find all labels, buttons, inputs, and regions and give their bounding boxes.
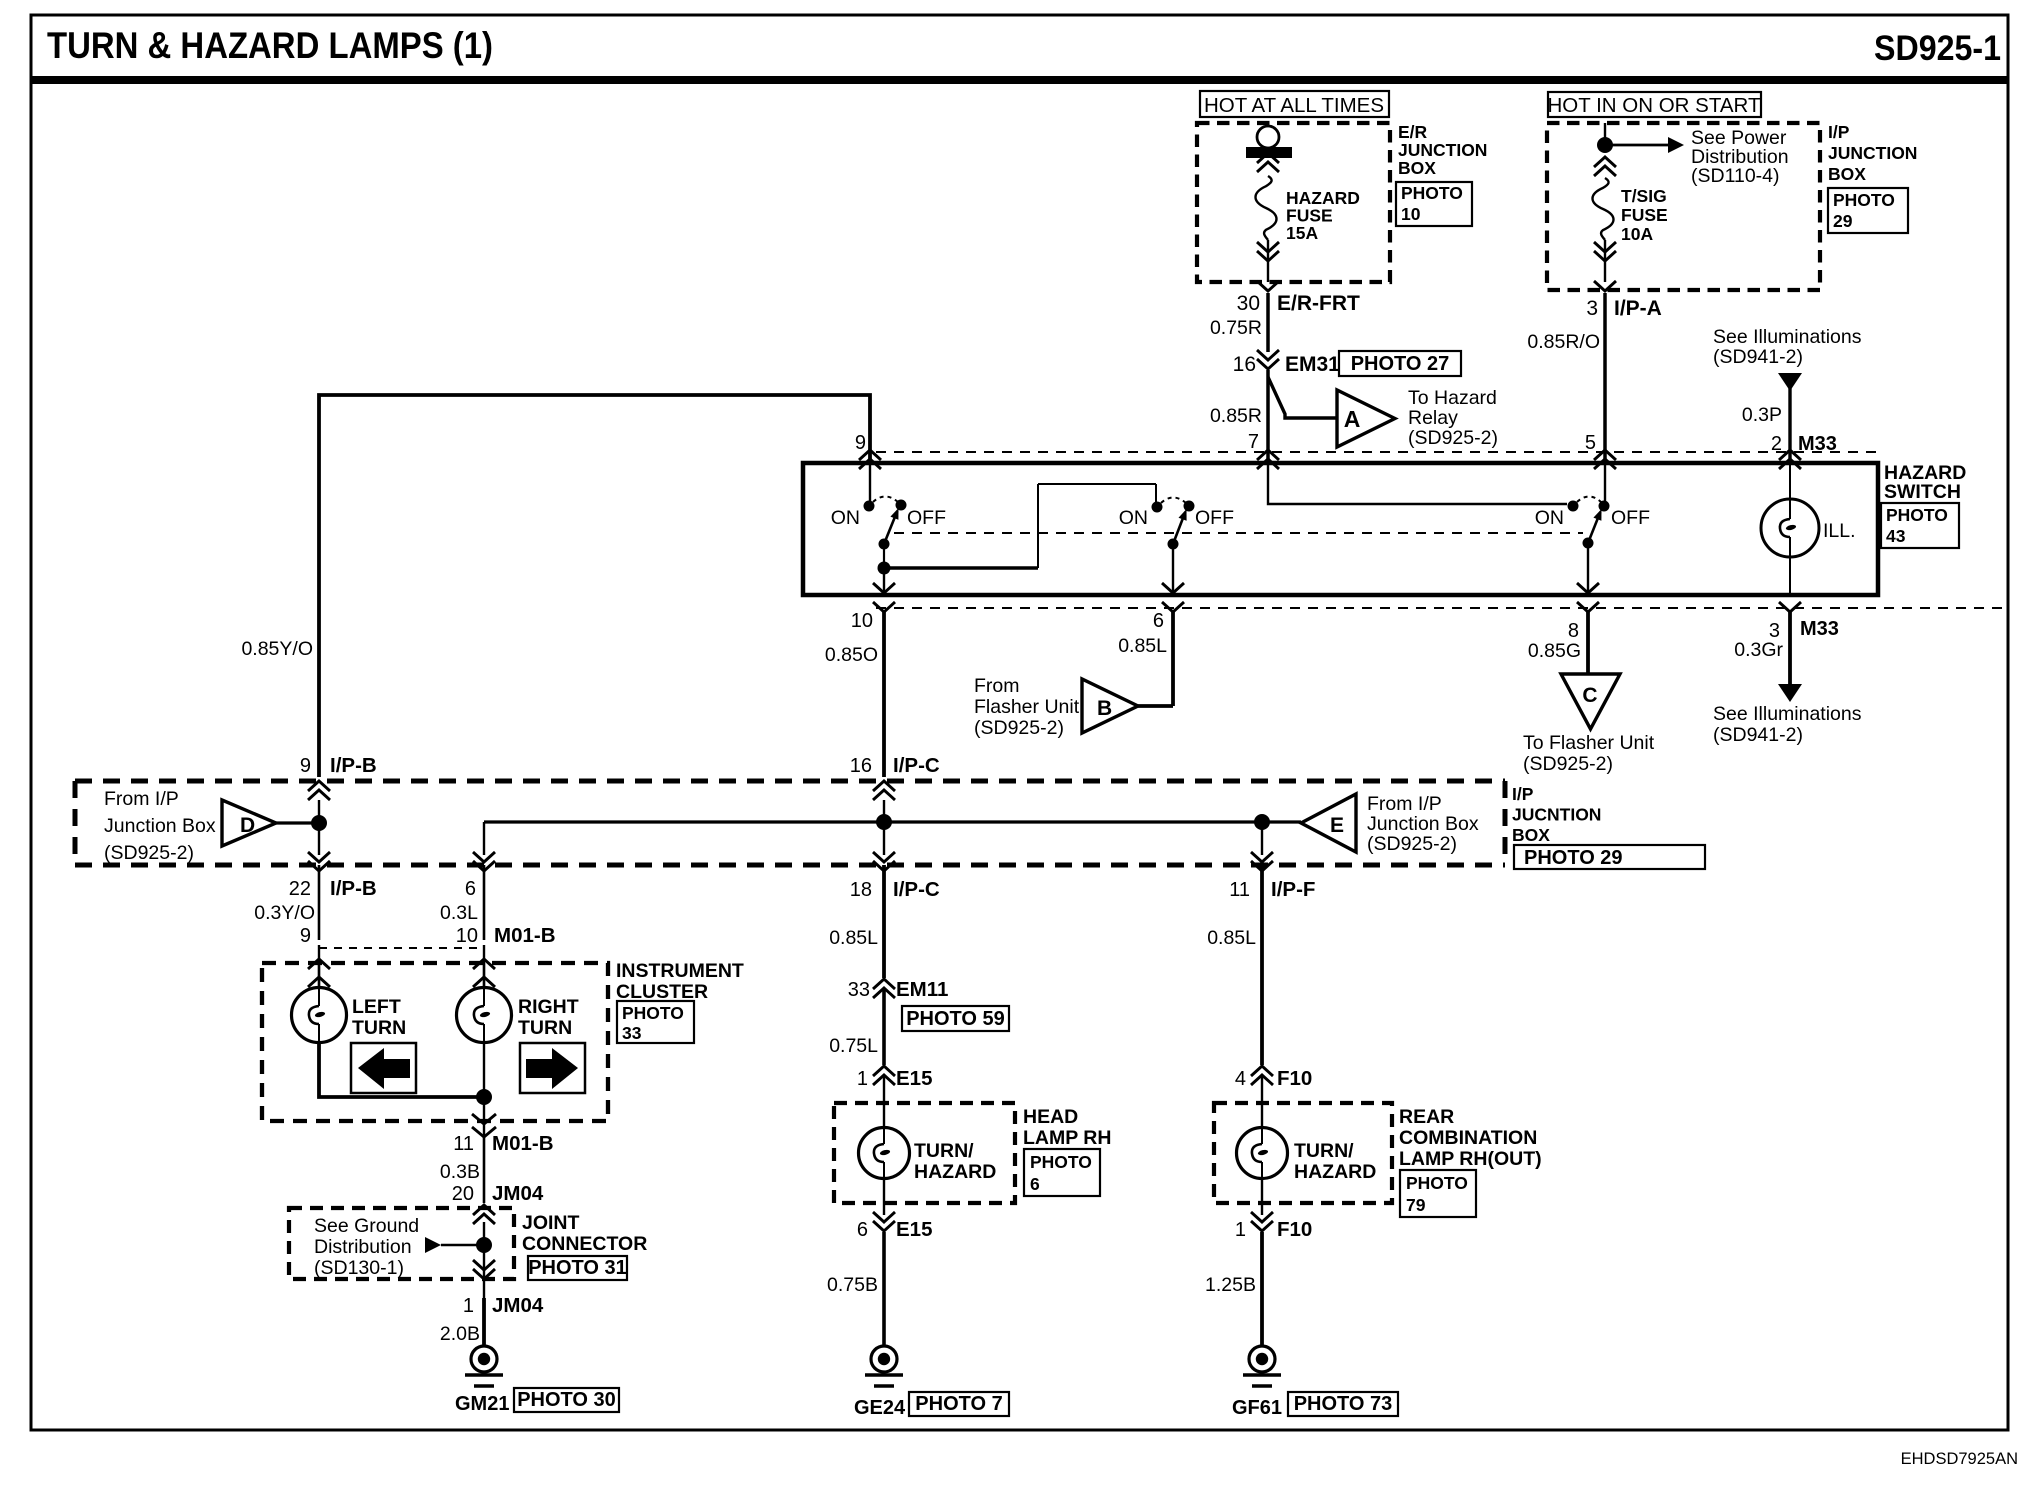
svg-text:I/P-C: I/P-C [893,754,940,777]
wire from connector B to pin 6 wire [1138,704,1173,708]
svg-text:Junction Box: Junction Box [104,815,216,837]
svg-text:E/R-FRT: E/R-FRT [1277,292,1360,315]
svg-text:JUNCTION: JUNCTION [1398,140,1487,160]
switch S2 lever [1173,509,1187,544]
svg-text:CONNECTOR: CONNECTOR [522,1233,647,1255]
wire pin 7 to switch S3 ON contact [1268,463,1567,504]
svg-text:E/R: E/R [1398,122,1428,142]
hazard switch box [803,463,1878,595]
wire switch S1 pole to switch S2 ON contact [884,484,1156,568]
svg-text:PHOTO 29: PHOTO 29 [1524,847,1623,869]
svg-text:LAMP RH: LAMP RH [1023,1127,1111,1149]
label HOT AT ALL TIMES [1200,91,1389,117]
svg-text:OFF: OFF [1195,507,1234,529]
ground GE24 [865,1346,903,1386]
lamp LEFT TURN [292,963,347,1043]
label To Hazard Relay (SD925-2) [1408,387,1498,449]
wire 0.75R from E/R-FRT to EM31 [1210,293,1268,352]
wire 0.85L to F10 [1207,865,1262,1065]
pin 2 entry chevrons [1779,450,1801,469]
svg-text:To Hazard: To Hazard [1408,387,1497,409]
connector chevrons E15 entry [873,1066,895,1085]
label See Illuminations (SD941-2) lower [1713,703,1862,746]
svg-text:6: 6 [857,1219,868,1241]
svg-text:REAR: REAR [1399,1106,1454,1128]
svg-text:PHOTO: PHOTO [1833,190,1895,210]
left turn arrow icon [351,1043,416,1093]
connector chevrons I/P-C upper [873,781,895,800]
svg-text:22: 22 [289,878,311,900]
pin 9 entry chevrons [859,450,881,469]
svg-text:JM04: JM04 [492,1294,544,1317]
connector chevrons F10 entry [1251,1066,1273,1085]
pin 3 exit chevrons [1779,602,1801,612]
svg-text:0.75R: 0.75R [1210,317,1262,339]
svg-text:M33: M33 [1800,618,1839,640]
svg-text:4: 4 [1235,1068,1246,1090]
svg-text:COMBINATION: COMBINATION [1399,1127,1537,1149]
svg-text:33: 33 [622,1023,642,1043]
label PHOTO 30 [514,1388,619,1412]
svg-text:HEAD: HEAD [1023,1106,1078,1128]
wire E branch down to M01-B [473,822,495,871]
svg-text:(SD110-4): (SD110-4) [1691,165,1780,187]
svg-text:0.3B: 0.3B [440,1161,480,1183]
svg-text:OFF: OFF [907,507,946,529]
svg-text:SWITCH: SWITCH [1884,481,1961,503]
svg-text:16: 16 [850,755,872,777]
wire 0.85R/O from I/P-A to hazard switch pin 5 [1527,293,1605,463]
svg-text:PHOTO: PHOTO [1030,1152,1092,1172]
pin 8 label [1568,620,1579,642]
switch S2 pivot dot [1168,539,1179,550]
svg-text:To Flasher Unit: To Flasher Unit [1523,732,1655,754]
pin 3 connector M33 lower [1769,618,1839,642]
pin 18 connector I/P-C lower [850,878,940,901]
svg-text:0.85Y/O: 0.85Y/O [241,638,313,660]
svg-text:LAMP RH(OUT): LAMP RH(OUT) [1399,1148,1542,1170]
fuse HAZARD FUSE 15A [1256,176,1277,240]
svg-text:0.3P: 0.3P [1742,404,1782,426]
head lamp RH box (dashed) [834,1103,1015,1203]
wire 0.85Y/O from pin 9 to I/P-B [241,395,870,777]
svg-text:C: C [1582,684,1597,707]
pin 1 connector JM04 [463,1294,544,1317]
svg-text:FUSE: FUSE [1621,205,1668,225]
title TURN & HAZARD LAMPS (1) [47,25,493,66]
svg-text:16: 16 [1233,353,1256,376]
pin 4 connector F10 [1235,1067,1312,1090]
pin 5 of hazard switch [1585,432,1596,454]
pin 9 label top [855,432,866,454]
svg-text:See Ground: See Ground [314,1215,419,1237]
svg-text:11: 11 [1229,879,1250,901]
pin 3 connector I/P-A [1586,297,1662,320]
wire I/P-B through junction region [318,800,320,855]
pin 6 connector E15 [857,1218,933,1241]
wire I/P-F down from junction [1261,822,1263,855]
svg-text:5: 5 [1585,432,1596,454]
label See Illuminations (SD941-2) upper [1713,326,1862,368]
svg-text:9: 9 [855,432,866,454]
junction node I/P-B [311,815,327,831]
wire left lamp to junction [319,1042,484,1097]
connector chevrons I/P-C lower [873,852,895,871]
svg-text:JUCNTION: JUCNTION [1512,805,1601,825]
svg-text:2.0B: 2.0B [440,1323,480,1345]
svg-text:A: A [1344,406,1361,432]
switch S3 lever [1588,509,1602,543]
pin 7 of hazard switch [1248,431,1259,453]
wire 0.75B to ground [827,1232,884,1346]
svg-text:HOT IN ON OR START: HOT IN ON OR START [1548,94,1761,117]
pin 22 connector I/P-B lower [289,877,377,900]
svg-text:0.85O: 0.85O [825,644,878,666]
label See Power Distribution (SD110-4) [1691,127,1789,187]
label PHOTO 29 lower [1514,845,1705,869]
connector chevrons below battery feed [1257,153,1279,172]
svg-text:CLUSTER: CLUSTER [616,981,708,1003]
svg-text:GF61: GF61 [1232,1397,1282,1419]
label PHOTO 33 [617,1001,694,1043]
wire 0.85L to EM11 [829,865,884,978]
svg-text:3: 3 [1586,297,1598,320]
svg-text:TURN: TURN [352,1017,406,1039]
svg-text:F10: F10 [1277,1218,1312,1241]
svg-text:PHOTO 30: PHOTO 30 [517,1389,616,1411]
ground GM21 [465,1346,503,1386]
svg-text:ILL.: ILL. [1823,520,1856,542]
svg-text:SD925-1: SD925-1 [1874,29,2001,68]
svg-text:See Illuminations: See Illuminations [1713,326,1862,348]
pin 16 connector EM31 [1233,353,1341,376]
pin 10 exit chevrons [873,602,895,612]
wire I/P-C through junction region [883,800,885,855]
rear combination lamp box (dashed) [1214,1103,1392,1203]
svg-text:0.85L: 0.85L [829,927,878,949]
svg-text:10A: 10A [1621,224,1653,244]
wire 0.85L pin 6 to flasher branch [1118,612,1173,706]
svg-text:D: D [240,814,255,837]
label PHOTO 7 [909,1392,1009,1416]
svg-text:OFF: OFF [1611,507,1650,529]
lamp ILL inside hazard switch [1761,463,1856,595]
label HAZARD FUSE 15A [1286,188,1360,243]
svg-text:JOINT: JOINT [522,1212,580,1234]
pin 11 connector M01-B output [453,1132,553,1155]
connector chevrons M01-B left [308,945,330,988]
svg-text:15A: 15A [1286,223,1318,243]
pin 9 connector I/P-B upper [300,754,377,777]
svg-text:10: 10 [1401,204,1421,224]
svg-text:From I/P: From I/P [104,788,179,810]
svg-text:7: 7 [1248,431,1259,453]
switch S1 wire from pin 9 [869,463,871,502]
svg-text:HOT AT ALL TIMES: HOT AT ALL TIMES [1204,94,1384,117]
pin 5 entry chevrons [1594,450,1616,469]
label TURN/HAZARD head lamp [914,1140,996,1183]
svg-text:0.3Y/O: 0.3Y/O [254,902,315,924]
label From I/P Junction Box (SD925-2) right [1367,793,1479,855]
wire connector D to I/P-B node [276,821,319,824]
svg-text:9: 9 [300,925,311,947]
wire 0.85O pin 10 to I/P-C [825,612,884,777]
connector M01-B dashed line [319,947,484,949]
off-page connector B from flasher unit [1082,679,1138,733]
lamp RIGHT TURN [457,963,512,1043]
svg-text:(SD941-2): (SD941-2) [1713,724,1803,746]
svg-text:33: 33 [848,979,870,1001]
svg-text:I/P-F: I/P-F [1271,878,1315,901]
svg-text:10: 10 [851,610,873,632]
svg-text:I/P-A: I/P-A [1614,297,1662,320]
instrument cluster box (dashed) [262,963,608,1121]
pin 16 connector I/P-C upper [850,754,940,777]
connector chevrons JM04 entry [473,1205,495,1224]
svg-text:See Illuminations: See Illuminations [1713,703,1862,725]
illumination output arrow [1778,684,1802,702]
off-page connector C to flasher unit [1561,674,1620,729]
I/P junction box (dashed) [1547,123,1820,290]
battery feed symbol [1246,126,1292,158]
svg-text:M01-B: M01-B [492,1132,554,1155]
label HAZARD SWITCH [1884,462,1966,503]
svg-text:0.85L: 0.85L [1207,927,1256,949]
label GE24 [854,1397,906,1419]
svg-text:From: From [974,675,1020,697]
wire 1.25B to ground [1205,1232,1262,1346]
label JOINT CONNECTOR [522,1212,647,1255]
footer code EHDSD7925AN [1901,1450,2018,1468]
pin 11 connector I/P-F [1229,878,1315,901]
connector chevrons F10 exit [1251,1179,1273,1231]
junction node I/P-F [1254,814,1270,830]
switch S1 lever [884,508,899,544]
connector chevrons EM11 [873,979,895,998]
pin 2 connector M33 [1771,433,1837,455]
connector chevrons at fuse box exit [1257,240,1279,291]
wire connector E to lamp columns [484,820,1301,823]
label RIGHT TURN [518,996,579,1039]
svg-text:BOX: BOX [1512,825,1550,845]
label INSTRUMENT CLUSTER [616,960,744,1003]
wire right lamp to junction [483,1042,485,1097]
pin 6 exit chevrons [1162,602,1184,612]
svg-text:GM21: GM21 [455,1393,509,1415]
pin 6 connector M01-B branch [465,878,476,900]
svg-text:0.75B: 0.75B [827,1274,878,1296]
pin 1 connector F10 [1235,1218,1312,1241]
arrow to power distribution [1605,137,1684,153]
svg-text:M01-B: M01-B [494,924,556,947]
svg-text:1: 1 [463,1295,474,1317]
svg-text:TURN & HAZARD LAMPS (1): TURN & HAZARD LAMPS (1) [47,25,493,66]
connector chevrons I/P-B upper [308,781,330,800]
wire 0.3B [440,1135,484,1203]
connector dashed line below hazard switch [876,607,2008,609]
label PHOTO 59 [902,1006,1009,1031]
svg-text:I/P-B: I/P-B [330,877,377,900]
svg-text:6: 6 [465,878,476,900]
switch S2 contacts ON/OFF [1119,498,1234,530]
label PHOTO 73 [1288,1392,1398,1416]
svg-text:EM31: EM31 [1285,353,1340,376]
label I/P JUNCTION BOX [1828,122,1917,184]
connector chevrons at T/SIG fuse exit [1594,240,1616,291]
svg-text:0.85G: 0.85G [1528,640,1581,662]
svg-text:(SD925-2): (SD925-2) [1367,833,1457,855]
svg-text:10: 10 [456,925,478,947]
ground distribution arrow [425,1237,484,1253]
label From Flasher Unit (SD925-2) [974,675,1080,739]
svg-text:TURN/: TURN/ [1294,1140,1354,1162]
label PHOTO 79 [1400,1170,1476,1217]
svg-text:0.3Gr: 0.3Gr [1734,639,1783,661]
switch S3 wire from pin 5 [1604,463,1606,501]
svg-text:(SD925-2): (SD925-2) [104,842,194,864]
label HOT IN ON OR START [1548,92,1762,117]
svg-text:PHOTO: PHOTO [1886,505,1948,525]
svg-text:GE24: GE24 [854,1397,906,1419]
connector chevrons M01-B right [473,945,495,988]
svg-text:30: 30 [1237,292,1260,315]
svg-text:(SD130-1): (SD130-1) [314,1257,404,1279]
off-page connector E from I/P junction box [1301,794,1356,852]
svg-text:PHOTO 31: PHOTO 31 [528,1257,627,1279]
svg-text:T/SIG: T/SIG [1621,186,1667,206]
pin 10 label [851,610,873,632]
svg-text:PHOTO: PHOTO [622,1003,684,1023]
wire 0.3P to pin 2 [1742,404,1782,426]
pin 30 connector E/R-FRT [1237,292,1360,315]
label PHOTO 27 [1339,351,1461,376]
svg-text:(SD925-2): (SD925-2) [1408,427,1498,449]
svg-text:6: 6 [1030,1174,1040,1194]
wire cluster output to pin 11 [472,1097,496,1137]
wire 0.3Gr pin 3 to illuminations [1734,612,1790,686]
label E/R JUNCTION BOX [1398,122,1487,178]
wire 2.0B to ground [440,1298,484,1346]
junction node cluster output [476,1089,492,1105]
svg-text:RIGHT: RIGHT [518,996,579,1018]
wire switch S2 pole down to pin 6 [1162,544,1184,595]
svg-text:I/P: I/P [1512,784,1534,804]
ground GF61 [1243,1346,1281,1386]
svg-text:PHOTO 27: PHOTO 27 [1351,353,1450,375]
connector chevrons I/P-F lower [1251,852,1273,871]
label HEAD LAMP RH [1023,1106,1111,1149]
pin 6 label [1153,610,1164,632]
svg-text:43: 43 [1886,526,1906,546]
right turn arrow icon [520,1043,585,1093]
off-page connector D from I/P junction box [222,800,276,846]
switch S1 pivot dots [878,539,891,575]
wire 0.75L to E15 [829,988,884,1065]
label PHOTO 29 upper [1828,188,1908,233]
svg-text:0.85L: 0.85L [1118,635,1167,657]
connector chevrons E15 exit [873,1179,895,1231]
svg-text:E15: E15 [896,1218,932,1241]
svg-text:E15: E15 [896,1067,932,1090]
svg-text:PHOTO: PHOTO [1406,1173,1468,1193]
svg-text:Relay: Relay [1408,407,1458,429]
svg-text:11: 11 [453,1133,474,1155]
label See Ground Distribution (SD130-1) [314,1215,419,1279]
wire switch S3 pole down to pin 8 [1577,543,1599,595]
E/R junction box (dashed) [1197,123,1390,282]
label TURN/HAZARD rear lamp [1294,1140,1376,1183]
svg-text:HAZARD: HAZARD [1294,1161,1376,1183]
svg-text:B: B [1097,697,1112,720]
svg-text:INSTRUMENT: INSTRUMENT [616,960,744,982]
svg-text:E: E [1330,814,1344,837]
pin 10 connector M01-B [456,924,556,947]
page code SD925-1 [1874,29,2001,68]
pin 8 exit chevrons [1577,602,1599,612]
label PHOTO 43 [1881,503,1959,548]
svg-text:PHOTO 73: PHOTO 73 [1294,1393,1393,1415]
connector chevrons below power dot [1594,157,1616,176]
connector chevrons I/P-B lower [308,852,330,871]
svg-text:I/P-B: I/P-B [330,754,377,777]
title separator bar [31,76,2008,84]
label GF61 [1232,1397,1282,1419]
svg-text:I/P: I/P [1828,122,1850,142]
junction dot power distribution [1597,137,1613,153]
svg-text:0.85R/O: 0.85R/O [1527,331,1600,353]
svg-text:ON: ON [1119,507,1148,529]
joint connector box (dashed) [289,1208,514,1279]
pin 1 connector E15 [857,1067,933,1090]
label To Flasher Unit (SD925-2) [1523,732,1655,775]
label REAR COMBINATION LAMP RH(OUT) [1399,1106,1542,1170]
svg-text:6: 6 [1153,610,1164,632]
svg-text:79: 79 [1406,1195,1426,1215]
pin 7 entry chevrons [1257,450,1279,469]
lamp TURN/HAZARD head lamp [859,1075,910,1179]
svg-text:TURN: TURN [518,1017,572,1039]
label GM21 [455,1393,509,1415]
svg-text:0.75L: 0.75L [829,1035,878,1057]
wire 0.3Y/O [254,865,319,940]
svg-text:EM11: EM11 [896,978,948,1001]
switch S3 contacts ON/OFF [1535,497,1650,530]
connector EM31 chevrons [1257,350,1279,369]
svg-text:PHOTO 59: PHOTO 59 [906,1008,1005,1030]
connector dashed line above hazard switch [876,451,1878,453]
svg-text:1: 1 [857,1068,868,1090]
fuse T/SIG FUSE 10A [1593,178,1614,240]
switch linkage dashed line [894,532,1583,534]
label PHOTO 6 [1024,1149,1100,1196]
svg-text:TURN/: TURN/ [914,1140,974,1162]
illumination feed arrow into pin 2 [1778,373,1802,463]
label PHOTO 10 [1396,182,1472,226]
off-page connector A to hazard relay [1337,390,1395,447]
svg-text:18: 18 [850,879,872,901]
svg-text:(SD925-2): (SD925-2) [974,717,1064,739]
svg-text:From I/P: From I/P [1367,793,1442,815]
svg-text:HAZARD: HAZARD [914,1161,996,1183]
svg-text:PHOTO: PHOTO [1401,183,1463,203]
lamp TURN/HAZARD rear lamp [1237,1075,1288,1179]
svg-text:29: 29 [1833,211,1853,231]
svg-text:0.85R: 0.85R [1210,405,1262,427]
wire switch S1 pole down to pin 10 [873,568,895,595]
svg-text:9: 9 [300,755,311,777]
svg-text:I/P-C: I/P-C [893,878,940,901]
svg-text:BOX: BOX [1828,164,1866,184]
